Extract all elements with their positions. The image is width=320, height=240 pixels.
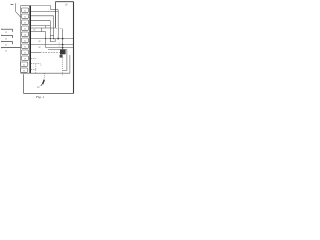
- junction dots rung38: [45, 38, 54, 39]
- wire row y38.6 long rung: [31, 38, 73, 40]
- node card top-right outline: [56, 2, 74, 28]
- capacitor cell C2: [21, 14, 28, 19]
- wire block top edge: [21, 5, 31, 7]
- resistor R4 left row 4: [1, 47, 20, 53]
- junction dots: [57, 38, 63, 49]
- wire row y52.6 dashed: [31, 52, 40, 54]
- capacitor cell C10: [21, 62, 28, 67]
- resistor R1 left row 1: [1, 29, 12, 35]
- wire vertical x45.7: [45, 32, 47, 48]
- wire step drop x45.7b: [45, 26, 47, 28]
- node 10 label top-left: [11, 4, 14, 6]
- wire dotted vertical x62.6 lower: [62, 58, 64, 76]
- wire block bottom rail: [21, 72, 70, 74]
- svg-text:Fig. 1: Fig. 1: [35, 95, 44, 99]
- wire dashed row y58.6: [31, 58, 36, 60]
- resistor R2 left row 2: [1, 35, 12, 41]
- wire dashed row y69.6: [31, 69, 36, 71]
- resistor R3 left row 3: [1, 41, 12, 47]
- wire row y44.6 long rung: [31, 44, 73, 46]
- wire vertical x50.3: [49, 21, 51, 42]
- wire step y35.6: [50, 35, 53, 37]
- wire row y31.6: [31, 31, 46, 33]
- capacitor cell C7: [21, 44, 28, 49]
- svg-text:2: 2: [59, 43, 60, 45]
- wire vertical x62.6: [62, 29, 64, 50]
- capacitor cell C5: [21, 32, 28, 37]
- node 12 pointer symbol: [41, 80, 45, 86]
- wire row y20.7: [31, 20, 50, 22]
- capacitor cell C1: [21, 8, 28, 13]
- transistor block right thick bar: [29, 6, 31, 74]
- wire dotted vertical x35.8: [35, 64, 37, 73]
- capacitor cell C8: [21, 50, 28, 55]
- transistor plug dark blob: [60, 49, 66, 54]
- svg-text:2: 2: [59, 46, 60, 48]
- wire nested corner x69.9: [69, 55, 71, 73]
- wire step y41.6: [50, 39, 55, 42]
- capacitor cell C6: [21, 38, 28, 43]
- wire row y28.0: [31, 27, 56, 29]
- wire bottom-left outline drop: [23, 74, 25, 93]
- wire row y11.6: [31, 11, 58, 13]
- wire vertical x58.2: [57, 10, 59, 39]
- capacitor cell C9: [21, 56, 28, 61]
- capacitor cell C4: [21, 26, 28, 31]
- wire step drop x41.5: [41, 28, 43, 32]
- wire outer spiral top turn: [31, 6, 51, 10]
- wire row y25.6: [31, 25, 50, 27]
- transistor plug lower tab: [60, 55, 63, 58]
- wire row y49.6: [48, 49, 67, 51]
- wire dashed top x62.6: [56, 28, 63, 30]
- capacitor cell C3: [21, 20, 28, 25]
- wire left bus vertical: [20, 6, 22, 74]
- wire row y47.6 rung: [46, 47, 74, 49]
- node right border: [73, 2, 75, 94]
- wire vertical x53.6: [53, 16, 55, 39]
- wire nested corner x66.9: [63, 50, 67, 71]
- node bottom border: [24, 93, 74, 95]
- svg-text:2: 2: [40, 65, 41, 67]
- capacitor cell C11: [21, 68, 28, 73]
- wire dashed row y63.6: [31, 63, 40, 65]
- wire row y15.8: [31, 15, 54, 17]
- wire dotted lead x44.2: [43, 73, 45, 79]
- wire lead line from label 10: [16, 3, 21, 17]
